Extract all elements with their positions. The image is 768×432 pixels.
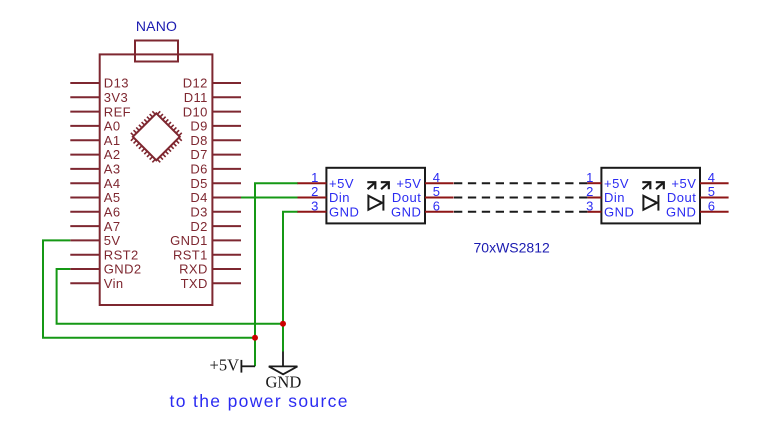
svg-text:RST1: RST1 xyxy=(173,247,208,262)
svg-text:4: 4 xyxy=(433,170,440,185)
svg-text:Dout: Dout xyxy=(392,190,421,205)
svg-text:D13: D13 xyxy=(104,76,129,91)
svg-text:6: 6 xyxy=(433,199,440,214)
svg-text:GND1: GND1 xyxy=(170,233,208,248)
svg-text:A1: A1 xyxy=(104,133,121,148)
svg-text:+5V: +5V xyxy=(671,176,696,191)
svg-text:A5: A5 xyxy=(104,190,121,205)
svg-text:GND2: GND2 xyxy=(104,262,142,277)
svg-text:5: 5 xyxy=(708,184,715,199)
svg-text:4: 4 xyxy=(708,170,715,185)
svg-text:GND: GND xyxy=(391,205,421,220)
svg-text:Vin: Vin xyxy=(104,276,124,291)
svg-text:A3: A3 xyxy=(104,162,121,177)
svg-text:D12: D12 xyxy=(183,76,208,91)
svg-text:1: 1 xyxy=(311,170,318,185)
svg-text:GND: GND xyxy=(266,373,302,392)
svg-text:3: 3 xyxy=(311,199,318,214)
svg-text:+5V: +5V xyxy=(604,176,629,191)
svg-text:70xWS2812: 70xWS2812 xyxy=(474,240,550,256)
svg-text:to the power source: to the power source xyxy=(170,391,349,411)
svg-text:+5V: +5V xyxy=(329,176,354,191)
svg-text:Din: Din xyxy=(329,190,350,205)
svg-text:5: 5 xyxy=(433,184,440,199)
svg-text:+5V: +5V xyxy=(210,355,240,374)
svg-text:REF: REF xyxy=(104,104,131,119)
svg-text:GND: GND xyxy=(666,205,696,220)
svg-text:2: 2 xyxy=(311,184,318,199)
svg-text:GND: GND xyxy=(329,205,359,220)
svg-text:+5V: +5V xyxy=(396,176,421,191)
svg-text:3V3: 3V3 xyxy=(104,90,128,105)
svg-text:D4: D4 xyxy=(190,190,207,205)
svg-text:NANO: NANO xyxy=(136,18,177,34)
svg-text:TXD: TXD xyxy=(181,276,208,291)
svg-text:RST2: RST2 xyxy=(104,247,139,262)
svg-text:D9: D9 xyxy=(190,119,207,134)
svg-text:D3: D3 xyxy=(190,205,207,220)
svg-text:5V: 5V xyxy=(104,233,121,248)
svg-text:D10: D10 xyxy=(183,104,208,119)
svg-text:D2: D2 xyxy=(190,219,207,234)
svg-text:6: 6 xyxy=(708,199,715,214)
svg-text:RXD: RXD xyxy=(179,262,208,277)
svg-text:A0: A0 xyxy=(104,119,121,134)
svg-text:D5: D5 xyxy=(190,176,207,191)
svg-text:Din: Din xyxy=(604,190,625,205)
svg-text:Dout: Dout xyxy=(667,190,696,205)
svg-text:A4: A4 xyxy=(104,176,121,191)
svg-text:A6: A6 xyxy=(104,205,121,220)
svg-text:D8: D8 xyxy=(190,133,207,148)
svg-text:D6: D6 xyxy=(190,162,207,177)
svg-text:D7: D7 xyxy=(190,147,207,162)
svg-text:GND: GND xyxy=(604,205,634,220)
svg-text:D11: D11 xyxy=(184,90,208,105)
svg-text:A7: A7 xyxy=(104,219,121,234)
svg-text:A2: A2 xyxy=(104,147,121,162)
